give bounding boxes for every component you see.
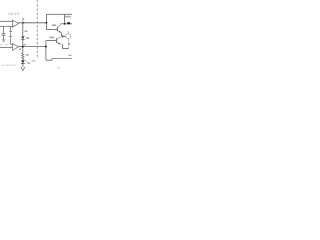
LED D2 arrows: [25, 60, 26, 61]
capacitor C2 plate ticks: [9, 31, 12, 33]
wire below LED to output arrow: [22, 64, 24, 68]
diode D1 (cathode down): [21, 36, 24, 39]
faint marks above U2 input wire: [0, 44, 2, 45]
downward open arrow terminal: [21, 67, 25, 70]
transistor Q2: [56, 38, 58, 43]
junction dot lamp node: [62, 35, 64, 37]
Q1 emitter wire down to lamp node: [61, 33, 63, 37]
collector wire of Q1 to right edge: [61, 23, 72, 25]
label right of vertical wire: [24, 31, 27, 32]
wire to transistor Q1 base: [46, 29, 57, 31]
resistor R1 label: [26, 54, 29, 56]
label b left of junction: [19, 48, 21, 50]
resistor R1 zigzag: [22, 53, 24, 61]
faint text bottom-center: [32, 60, 36, 61]
transistor Q1 label: [52, 24, 56, 26]
vertical bus on right of divider: [45, 41, 47, 61]
op-amp U2 non-inverting input wire from left edge: [0, 47, 12, 49]
wire vertical from node at x=3.6 down to capacitor C1: [3, 26, 5, 33]
dark component blob on collector wire: [67, 22, 70, 24]
op-amp U1 triangle: [13, 20, 19, 27]
op-amp U1 input polarity marks: [13, 20, 14, 22]
diode D1 value label: [26, 37, 29, 39]
corner to Q2 base wire: [46, 40, 57, 42]
svg-text:comparator: comparator: [1, 63, 17, 67]
ground symbol below C1: [2, 39, 6, 41]
small label right of wire above junction: [24, 44, 26, 46]
Q2 emitter wire down and right: [62, 44, 64, 48]
wire to lamp: [62, 35, 66, 37]
wire vertical from rail down through node to Q1 base corner: [45, 14, 47, 29]
junction dot at LED chain: [22, 46, 24, 48]
wire vertical from node A down to diode D1: [22, 23, 24, 37]
node A junction dot: [22, 22, 24, 24]
op-amp U2 triangle: [13, 44, 19, 51]
vertical from top rail to collector wire: [64, 14, 66, 23]
node A label above junction: [22, 18, 24, 20]
junction dot where U1 output meets vertical: [45, 22, 47, 24]
wire continues down to op-amp U2 inverting input: [10, 37, 12, 44]
wire input to op-amp U1 non-inverting input: [0, 25, 12, 27]
lamp top stub: [67, 31, 69, 34]
bus corner bottom and bottom rail: [46, 59, 52, 61]
svg-text:LM.IC4: LM.IC4: [8, 12, 19, 16]
transistor Q1: [56, 27, 58, 32]
transistor Q2 label: [49, 37, 54, 39]
wire input top-left to op-amp U1 inverting input: [0, 20, 12, 22]
LED D2 (pointing down): [21, 60, 25, 63]
wire op-amp U1 output to node A and to right vertical bus: [19, 22, 47, 24]
op-amp U2 output wire to right vertical bus: [19, 46, 47, 48]
junction dot U2 output to bus: [45, 46, 47, 48]
wire vertical x=10.6 from + input node down: [10, 26, 12, 31]
faint mark above bottom rail right: [68, 55, 71, 56]
title label LM IC top-left: [8, 12, 19, 16]
wire below capacitor C1: [3, 35, 5, 39]
LED D2 label: [27, 62, 30, 64]
capacitor C1 plates: [2, 33, 6, 35]
lamp bottom lead: [67, 39, 69, 49]
wire from D1 cathode down to junction with U2 output: [22, 40, 24, 53]
dashed divider line: [36, 0, 38, 57]
lamp L1 circle: [66, 34, 71, 39]
top supply rail: [46, 13, 72, 15]
label below rail at right: [65, 16, 71, 18]
junction dot collector node: [64, 23, 66, 25]
